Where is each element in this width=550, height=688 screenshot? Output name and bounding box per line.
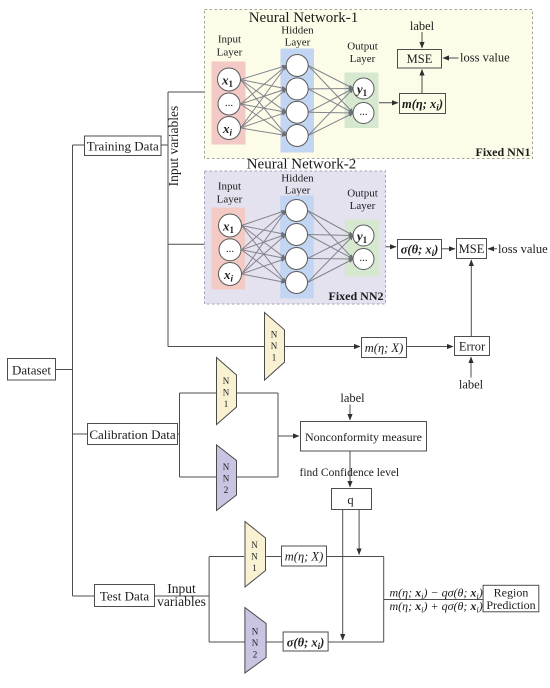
svg-text:Output: Output [347, 41, 378, 53]
arrow m box to MSE (NN1) [421, 70, 423, 94]
svg-text:Layer: Layer [285, 185, 311, 197]
svg-text:1: 1 [224, 399, 229, 409]
label Input Layer (NN2) [217, 181, 243, 206]
wire test bottom branch [209, 641, 245, 643]
Neural Network-2 container (Fixed NN2) [205, 171, 386, 304]
svg-text:Training Data: Training Data [87, 139, 159, 154]
svg-text:loss value: loss value [498, 242, 548, 256]
neuron x1 (NN2) [219, 214, 242, 237]
wire Test Data to split [155, 595, 210, 597]
connections hidden to output (NN1) [308, 66, 353, 136]
neuron xi (NN2) [219, 263, 242, 286]
box MSE (NN1) [398, 50, 442, 69]
wire calibration split vertical [179, 393, 181, 477]
svg-text:N: N [271, 341, 278, 351]
svg-text:Hidden: Hidden [281, 173, 314, 185]
wire input variables to NN1 trapezoid (middle row) [168, 346, 265, 348]
neuron y1 (NN1) [353, 78, 374, 99]
trapezoid NN1 (calibration) [217, 358, 237, 425]
svg-text:Layer: Layer [350, 200, 376, 212]
svg-text:N: N [223, 462, 230, 472]
label Hidden Layer (NN2) [281, 173, 314, 197]
Neural Network-1 container (Fixed NN1) [205, 10, 533, 159]
svg-text:MSE: MSE [407, 52, 433, 66]
svg-text:N: N [223, 376, 230, 386]
svg-text:Fixed NN1: Fixed NN1 [476, 145, 531, 159]
box sigma(theta;xi) (test) [283, 632, 328, 651]
label Input Layer (NN1) [217, 34, 243, 59]
svg-text:Layer: Layer [217, 194, 243, 206]
box Region Prediction [483, 585, 539, 612]
svg-text:...: ... [359, 252, 368, 264]
svg-text:m(η; X): m(η; X) [365, 341, 403, 355]
neuron dots (NN1 output) [353, 103, 374, 124]
trapezoid NN2 (test) [245, 608, 266, 674]
box m(eta;X) (test) [282, 546, 327, 566]
fraction line [384, 599, 483, 601]
svg-text:1: 1 [272, 352, 277, 362]
svg-text:...: ... [225, 97, 234, 109]
svg-text:label: label [340, 391, 365, 405]
svg-text:Calibration Data: Calibration Data [89, 427, 176, 442]
svg-text:Input: Input [218, 34, 241, 46]
neuron dots (NN1 input) [218, 93, 240, 115]
svg-text:find Confidence level: find Confidence level [300, 467, 400, 479]
wire trunk to Calibration Data [73, 433, 88, 435]
box MSE (NN2) [457, 239, 487, 259]
neuron dots (NN2 output) [353, 249, 374, 270]
box Nonconformity measure [301, 422, 427, 452]
svg-text:1: 1 [252, 563, 257, 573]
wire sigma box to right rail [328, 641, 384, 643]
svg-text:MSE: MSE [459, 242, 485, 256]
connections hidden to output (NN2) [308, 211, 354, 283]
arrow label to Nonconformity [349, 405, 351, 421]
svg-text:N: N [252, 638, 259, 648]
svg-text:q: q [347, 493, 354, 507]
svg-text:label: label [410, 19, 435, 33]
wire m box to right rail [327, 556, 384, 558]
svg-text:N: N [223, 387, 230, 397]
neuron h3 (NN1) [286, 101, 308, 123]
svg-text:N: N [252, 626, 259, 636]
wire Calibration Data to split [178, 433, 180, 435]
neuron h4 (NN2) [286, 272, 308, 294]
neuron x1 (NN1) [218, 68, 241, 91]
neuron h1 (NN1) [286, 55, 308, 77]
arrow to Nonconformity measure [278, 435, 299, 437]
svg-text:N: N [271, 329, 278, 339]
arrow sigma to MSE (NN2) [442, 248, 455, 250]
box sigma(theta;xi) (NN2) [398, 240, 442, 259]
neuron h2 (NN1) [286, 78, 308, 100]
svg-text:N: N [251, 551, 258, 561]
arrow m(eta;X) to Error [407, 346, 454, 348]
svg-text:N: N [251, 540, 258, 550]
trapezoid NN2 (calibration) [217, 445, 237, 511]
svg-text:m(η; xi) + qσ(θ; xi): m(η; xi) + qσ(θ; xi) [390, 599, 483, 615]
wire calibration top branch [180, 392, 279, 394]
svg-text:Layer: Layer [217, 47, 243, 59]
arrow loss value to MSE (NN1) [443, 57, 459, 59]
svg-text:m(η; X): m(η; X) [285, 550, 323, 564]
output layer band (NN1) [345, 73, 379, 129]
svg-text:...: ... [226, 243, 235, 255]
svg-text:Nonconformity measure: Nonconformity measure [305, 430, 422, 444]
svg-text:Layer: Layer [285, 37, 311, 49]
input layer band (NN1) [212, 62, 246, 145]
arrow label to MSE (NN1) [421, 32, 423, 48]
input layer band (NN2) [212, 208, 246, 290]
svg-text:Fixed NN2: Fixed NN2 [329, 289, 384, 303]
arrow Error to MSE (NN2) [470, 260, 472, 336]
svg-text:Layer: Layer [350, 53, 376, 65]
wire input variables to NN2 input [168, 243, 205, 245]
wire test split vertical [208, 557, 210, 643]
svg-text:Input: Input [218, 181, 241, 193]
label Input variables (test) [157, 581, 206, 609]
hidden layer band (NN1) [281, 49, 315, 153]
arrow label to Error [470, 357, 472, 378]
trapezoid NN1 (test) [245, 522, 266, 588]
wire Dataset to trunk [56, 369, 73, 371]
arrow NN2 to sigma box [386, 246, 396, 248]
box Calibration Data [88, 424, 178, 445]
arrow loss value to MSE (NN2) [488, 248, 497, 250]
svg-text:N: N [223, 473, 230, 483]
arrow Nonconformity to q [349, 451, 351, 487]
svg-text:2: 2 [253, 649, 258, 659]
svg-text:Hidden: Hidden [281, 25, 314, 37]
wire calibration bottom branch [180, 476, 279, 478]
box m(eta;xi) (NN1) [400, 94, 446, 114]
wire right rail vertical [383, 557, 385, 643]
wire trapezoid to m box (test) [266, 556, 281, 558]
neuron h1 (NN2) [286, 200, 308, 222]
wire calibration merge vertical [277, 393, 279, 477]
label Output Layer (NN2) [347, 188, 378, 213]
neuron h2 (NN2) [286, 224, 308, 246]
wire trunk to Test Data [73, 595, 95, 597]
svg-text:2: 2 [224, 485, 229, 495]
svg-text:loss value: loss value [460, 50, 510, 64]
neuron y1 (NN2) [353, 225, 374, 246]
svg-text:Error: Error [459, 340, 486, 354]
box q [332, 489, 372, 510]
arrow q to sigma rail [342, 510, 344, 640]
neuron h4 (NN1) [286, 125, 308, 147]
connections input to hidden (NN2) [242, 211, 286, 283]
arrow q to m rail [358, 510, 360, 555]
box Dataset [8, 359, 56, 381]
box Test Data [95, 585, 155, 607]
label Output Layer (NN1) [347, 41, 378, 66]
arrow trapezoid to m(eta;X) box (middle row) [285, 346, 361, 348]
box m(eta;X) (middle row) [362, 338, 407, 358]
svg-text:Dataset: Dataset [12, 363, 51, 378]
trapezoid NN1 (middle row) [265, 313, 285, 381]
wire trapezoid to sigma box (test) [266, 641, 283, 643]
connections input to hidden (NN1) [241, 66, 287, 136]
hidden layer band (NN2) [280, 196, 314, 299]
neuron h3 (NN2) [286, 248, 308, 270]
svg-text:label: label [459, 378, 484, 392]
wire input variables to NN1 input [168, 91, 205, 93]
arrow output layer to m box (NN1) [379, 102, 398, 104]
wire trunk vertical [72, 145, 74, 596]
box Training Data [85, 136, 162, 156]
wire input variables vertical [167, 92, 169, 347]
svg-text:Prediction: Prediction [486, 598, 535, 612]
svg-text:Test Data: Test Data [100, 589, 149, 604]
svg-text:Input variables: Input variables [166, 106, 181, 187]
wire Training Data to input variables line [161, 144, 168, 146]
svg-text:Neural Network-2: Neural Network-2 [247, 157, 357, 173]
wire test top branch [209, 556, 244, 558]
svg-text:...: ... [359, 106, 368, 118]
neuron dots (NN2 input) [219, 239, 241, 261]
box Error [455, 337, 490, 356]
label Hidden Layer (NN1) [281, 25, 314, 49]
wire trunk to Training Data [73, 144, 85, 146]
svg-text:Output: Output [347, 188, 378, 200]
neuron xi (NN1) [218, 117, 241, 140]
output layer band (NN2) [345, 220, 379, 277]
